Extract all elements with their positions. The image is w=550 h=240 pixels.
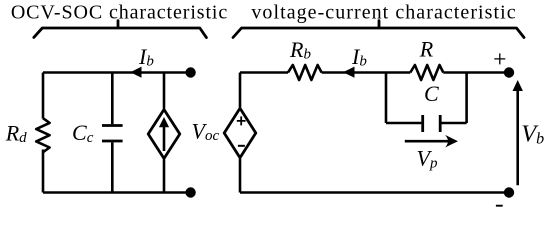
svg-text:Ib: Ib bbox=[138, 44, 154, 70]
svg-text:Cc: Cc bbox=[72, 120, 94, 146]
svg-text:OCV-SOC characteristic: OCV-SOC characteristic bbox=[11, 1, 228, 23]
svg-text:Vp: Vp bbox=[417, 145, 438, 171]
svg-text:C: C bbox=[424, 81, 439, 106]
svg-text:Rb: Rb bbox=[289, 37, 311, 63]
svg-text:R: R bbox=[419, 37, 434, 62]
svg-text:Ib: Ib bbox=[351, 44, 367, 70]
svg-text:voltage-current characteristic: voltage-current characteristic bbox=[251, 1, 516, 23]
svg-text:Rd: Rd bbox=[5, 121, 27, 147]
svg-text:Voc: Voc bbox=[192, 119, 220, 145]
svg-text:Vb: Vb bbox=[521, 121, 544, 148]
